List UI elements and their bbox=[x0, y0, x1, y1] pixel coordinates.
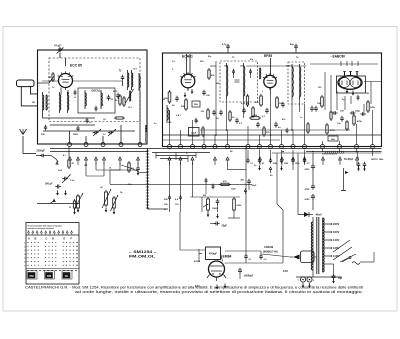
decoupling capacitor 5000 bbox=[269, 150, 278, 165]
wire bbox=[323, 110, 373, 145]
svg-text:CASTELFRANCHI G.R. - Mod. SM 1: CASTELFRANCHI G.R. - Mod. SM 1254. Ricev… bbox=[25, 285, 363, 290]
FM anode coil L3 bbox=[68, 92, 69, 113]
resistor R17 470 bbox=[219, 180, 231, 186]
resistor R27 FM ratio bbox=[114, 117, 125, 119]
value label bbox=[109, 168, 112, 170]
svg-text:4,7p: 4,7p bbox=[222, 43, 227, 46]
terminal pin 7 main box bbox=[246, 145, 250, 149]
oscillator padding capacitor bbox=[107, 95, 114, 101]
trimmer capacitor 47pF above FM box bbox=[54, 44, 64, 59]
AFC capacitor bbox=[113, 90, 120, 99]
band switch contact bbox=[137, 157, 140, 165]
wire bbox=[193, 162, 203, 212]
resistor R5 box bbox=[192, 101, 200, 107]
tube V5 EM84 bbox=[207, 261, 226, 281]
capacitor C11 bbox=[242, 108, 246, 114]
wire bbox=[225, 242, 284, 263]
svg-text:25µF: 25µF bbox=[222, 225, 228, 228]
svg-text:300: 300 bbox=[32, 102, 35, 104]
wire bbox=[312, 199, 314, 210]
speaker connector socket bbox=[301, 251, 315, 263]
svg-text:2: 2 bbox=[24, 246, 25, 248]
electrolytic label 50+50uF bbox=[344, 159, 354, 161]
terminal pin 1 main box bbox=[168, 145, 172, 149]
power transformer primary winding bbox=[311, 222, 313, 270]
svg-text:2M: 2M bbox=[203, 195, 206, 197]
capacitor C28 bbox=[195, 118, 198, 124]
value label bbox=[162, 99, 165, 101]
pickup label right bbox=[371, 159, 384, 161]
resistor R11 det load bbox=[353, 114, 363, 126]
terminal pin 3 main box bbox=[191, 145, 195, 149]
resistor R22 bbox=[252, 106, 254, 118]
band switch contact bbox=[191, 157, 194, 165]
band label FM bbox=[28, 273, 35, 279]
decoupling capacitor 1000 bbox=[280, 150, 289, 165]
wave change switch wire bbox=[37, 199, 80, 203]
band switch contact bbox=[226, 157, 229, 165]
table socket pins row bbox=[28, 231, 73, 235]
capacitor C32 bbox=[205, 178, 208, 194]
value label bbox=[216, 83, 220, 85]
band switch contact bbox=[69, 157, 72, 165]
capacitor C21 bbox=[216, 110, 223, 120]
svg-text:6: 6 bbox=[24, 262, 25, 264]
speaker connector arrow bbox=[290, 255, 300, 260]
wire bbox=[42, 58, 123, 95]
capacitor C7 bbox=[202, 90, 210, 97]
svg-text:EF85: EF85 bbox=[264, 54, 272, 58]
coupling coil L6 bbox=[139, 73, 140, 91]
IF transformer T4 secondary coil bbox=[300, 64, 301, 100]
svg-text:10000: 10000 bbox=[212, 208, 219, 210]
ground return arrow bbox=[258, 166, 261, 171]
terminal pin 4 main box bbox=[202, 145, 206, 149]
capacitor C9 EF85 cathode bbox=[262, 108, 269, 118]
wire bbox=[180, 212, 223, 262]
FM grid coil L2 bbox=[60, 92, 61, 113]
ratio detector resistor R10 bbox=[317, 95, 323, 108]
terminal pin 9 main box bbox=[269, 145, 273, 149]
capacitor C15 antenna 2200pF bbox=[36, 150, 51, 158]
ground return arrow bbox=[73, 210, 76, 215]
ground return arrow bbox=[56, 191, 59, 196]
capacitor C24 bbox=[274, 122, 281, 129]
value label bbox=[74, 97, 77, 99]
resistor R25 bbox=[346, 120, 348, 131]
resistor R31 bbox=[330, 110, 332, 121]
band switch bus wire bbox=[50, 148, 382, 150]
terminal pin 2 FM unit bbox=[84, 143, 88, 147]
svg-text:B: B bbox=[35, 237, 37, 241]
heater wire bbox=[296, 276, 342, 278]
band switch contact bbox=[119, 157, 122, 165]
svg-text:6,3V: 6,3V bbox=[283, 270, 288, 273]
table right column marks bbox=[76, 242, 77, 266]
capacitor C3 feedthrough bbox=[41, 125, 47, 136]
wire bbox=[120, 169, 138, 171]
ground return arrow bbox=[207, 212, 210, 217]
band label outline OM bbox=[45, 271, 55, 279]
svg-text:OM: OM bbox=[84, 165, 88, 167]
wire bbox=[293, 153, 298, 215]
svg-text:470kpF: 470kpF bbox=[209, 253, 218, 256]
svg-text:OL: OL bbox=[65, 274, 69, 278]
wire bbox=[148, 208, 169, 210]
decoupling capacitor 50 bbox=[258, 150, 265, 165]
resistor R29 bbox=[202, 126, 204, 137]
band switch contact bbox=[281, 157, 284, 165]
capacitor C23 bbox=[256, 122, 260, 128]
capacitor C5 in oscillator box bbox=[95, 106, 98, 112]
wire bbox=[86, 162, 138, 176]
cable label bbox=[263, 246, 278, 254]
svg-text:4: 4 bbox=[24, 253, 25, 256]
tube V1 ECC85 label bbox=[70, 64, 82, 68]
IF output transformer 10.7MHz secondary bbox=[132, 70, 133, 90]
value label bbox=[52, 87, 55, 89]
tube V2 ECH81 bbox=[180, 72, 195, 98]
tube V3 EF85 label bbox=[264, 54, 272, 58]
wire bbox=[270, 58, 272, 95]
capacitor C22 bbox=[235, 118, 243, 125]
capacitor C31 10uF bbox=[247, 179, 257, 190]
svg-text:C.A.: C.A. bbox=[70, 179, 75, 182]
value label bbox=[318, 87, 322, 89]
transformer tap 160V bbox=[325, 230, 340, 234]
capacitor C6 ECH81 bbox=[172, 96, 179, 107]
svg-text:2200pF: 2200pF bbox=[37, 150, 46, 153]
svg-text:500: 500 bbox=[162, 99, 165, 101]
ribbon cable hatching bbox=[325, 151, 344, 154]
tuning gang trimmer bbox=[111, 195, 119, 211]
value label bbox=[250, 58, 253, 61]
band switch contact bbox=[103, 157, 106, 165]
svg-text:140V: 140V bbox=[333, 238, 339, 242]
value label bbox=[296, 56, 299, 59]
value label bbox=[58, 170, 63, 172]
resistor R24 EABC80 anode bbox=[367, 100, 376, 113]
pilot lamp T1 bbox=[298, 277, 306, 282]
value label bbox=[172, 61, 175, 63]
model designation SM1254 bbox=[129, 250, 157, 259]
value label bbox=[84, 165, 88, 167]
value label bbox=[246, 103, 249, 105]
ratio det capacitor C12 bbox=[310, 106, 318, 112]
wire bbox=[227, 99, 300, 130]
svg-text:47000: 47000 bbox=[194, 260, 201, 263]
wire bbox=[337, 91, 364, 112]
terminal pin 3 FM unit bbox=[101, 143, 105, 147]
resistor R9 AGC bbox=[249, 115, 261, 119]
resistor R14 bbox=[68, 158, 75, 169]
wire bbox=[228, 165, 247, 170]
svg-text:A: A bbox=[69, 206, 71, 209]
B+ line bbox=[246, 64, 378, 66]
value label bbox=[100, 187, 104, 189]
svg-text:1: 1 bbox=[24, 243, 25, 245]
resistor R32 bbox=[241, 94, 249, 107]
trimmer capacitor OM antenna bbox=[62, 175, 75, 184]
capacitor across T3 primary bbox=[232, 69, 235, 78]
resistor R6 AM osc bbox=[207, 108, 209, 120]
filter capacitor lead bbox=[341, 168, 349, 191]
wire bbox=[364, 82, 382, 105]
svg-text:470k: 470k bbox=[237, 204, 243, 207]
wire bbox=[38, 76, 55, 83]
table header line bbox=[26, 234, 79, 236]
value label bbox=[230, 150, 233, 153]
terminal pin 8 main box bbox=[258, 145, 262, 149]
rectifier diode bbox=[298, 212, 322, 217]
terminal pin 12 main box bbox=[303, 145, 307, 149]
svg-text:220p: 220p bbox=[355, 111, 361, 113]
band switch contact bbox=[85, 157, 88, 165]
tube V3 EF85 bbox=[263, 73, 277, 90]
resistor R12 AF bbox=[326, 123, 336, 135]
value label bbox=[300, 117, 303, 119]
value label bbox=[254, 165, 257, 167]
volume potentiometer bbox=[203, 195, 209, 212]
junction dots bbox=[169, 129, 358, 152]
capacitor C19 bbox=[244, 242, 252, 261]
value label bbox=[120, 192, 124, 194]
wire bbox=[210, 61, 216, 135]
svg-text:50000pF: 50000pF bbox=[244, 276, 254, 278]
oscillator coil L5 bbox=[101, 90, 102, 109]
oscillator coil L4 bbox=[85, 90, 86, 109]
decoupling capacitor 220k bbox=[291, 150, 300, 165]
resistor R21 bbox=[229, 110, 235, 122]
tuning trimmer FM bbox=[93, 129, 106, 136]
svg-text:7: 7 bbox=[24, 265, 25, 267]
wire bbox=[228, 212, 240, 218]
terminal pin 1 FM unit bbox=[68, 143, 72, 147]
ground return arrow bbox=[77, 208, 80, 213]
wire bbox=[169, 110, 171, 123]
value label bbox=[201, 111, 205, 113]
terminal pin 10 main box bbox=[280, 145, 284, 149]
antenna input coil L1 bbox=[43, 92, 48, 113]
wire bbox=[163, 139, 281, 141]
wire bbox=[170, 110, 228, 145]
table row numbers bbox=[24, 243, 25, 268]
svg-text:D: D bbox=[52, 237, 54, 241]
value label bbox=[176, 115, 180, 117]
terminal pin 4 FM unit bbox=[119, 143, 123, 147]
wire bbox=[312, 153, 314, 164]
IF output transformer T2 label bbox=[119, 70, 122, 73]
value label bbox=[200, 61, 204, 63]
svg-text:10µF: 10µF bbox=[191, 132, 197, 134]
capacitor C13 above box2 bbox=[222, 43, 230, 53]
IF transformer T4 primary coil bbox=[292, 64, 293, 100]
svg-text:E: E bbox=[64, 237, 66, 241]
svg-text:10µF: 10µF bbox=[231, 189, 236, 191]
svg-text:Tensioni ai piedini delle valv: Tensioni ai piedini delle valvole di rip… bbox=[28, 226, 63, 228]
svg-text:C: C bbox=[46, 237, 48, 241]
wire bbox=[325, 72, 331, 110]
value label bbox=[172, 69, 174, 71]
capacitor across T3 secondary bbox=[249, 69, 252, 78]
value label bbox=[282, 118, 286, 121]
IF transformer T3 secondary coil bbox=[244, 63, 245, 99]
svg-text:82p: 82p bbox=[290, 44, 294, 46]
tube V4 EABC80 label bbox=[331, 55, 346, 59]
wire bbox=[86, 170, 120, 176]
grid capacitor 47000 bbox=[194, 249, 202, 263]
capacitor C33 bbox=[212, 184, 215, 190]
svg-text:5000: 5000 bbox=[73, 134, 79, 136]
ground return arrow bbox=[105, 208, 108, 213]
wire bbox=[325, 252, 375, 274]
svg-text:– SM1254 –: – SM1254 – bbox=[129, 250, 157, 254]
resistor R1 FM grid bbox=[48, 72, 54, 82]
power transformer core bbox=[317, 217, 319, 274]
terminal pin 5 main box bbox=[213, 145, 217, 149]
capacitor C14 above box2 bbox=[290, 44, 298, 53]
ground return arrow bbox=[280, 166, 283, 171]
value label bbox=[224, 66, 228, 68]
wire bbox=[68, 147, 70, 160]
svg-text:160V: 160V bbox=[333, 230, 339, 234]
terminal pin 6 main box bbox=[226, 145, 230, 149]
value label bbox=[366, 93, 369, 95]
caption line 1 bbox=[25, 285, 363, 290]
oscillator tuning coil bbox=[126, 89, 134, 103]
electrolytic capacitor 50uF b bbox=[363, 162, 367, 171]
capacitor C27 bbox=[136, 166, 140, 176]
resistor R4 bbox=[181, 98, 187, 111]
capacitor C26 FM bbox=[86, 118, 93, 124]
svg-text:4700: 4700 bbox=[305, 198, 311, 201]
tone capacitor 4700pF 2 bbox=[305, 184, 316, 191]
svg-text:10n: 10n bbox=[337, 123, 341, 125]
phono input label bbox=[322, 153, 338, 156]
electrolytic capacitor 50uF output bbox=[332, 274, 343, 284]
tube V1 ECC85 bbox=[58, 71, 73, 95]
core symbol T3 bbox=[235, 80, 240, 82]
detector caps row bbox=[332, 111, 366, 116]
resistor R13 box bbox=[328, 136, 338, 141]
value label bbox=[178, 115, 182, 117]
svg-text:4700: 4700 bbox=[286, 65, 290, 68]
svg-text:- EABC80: - EABC80 bbox=[331, 55, 346, 59]
wire bbox=[323, 149, 373, 161]
band switch contact bbox=[77, 157, 80, 165]
dial cord indicator line bbox=[146, 149, 149, 210]
ground return arrow bbox=[113, 210, 116, 215]
svg-text:AFC: AFC bbox=[113, 90, 118, 93]
svg-text:EM84: EM84 bbox=[223, 255, 232, 259]
capacitor C8 bbox=[212, 110, 216, 116]
wire bbox=[200, 129, 350, 131]
terminal pin 13 main box bbox=[321, 145, 325, 149]
wire bbox=[110, 170, 120, 184]
capacitor C29 bbox=[286, 128, 289, 134]
value label bbox=[154, 123, 157, 125]
voltage selector switch arm bbox=[333, 240, 356, 262]
capacitor C25 bbox=[337, 116, 344, 125]
value label bbox=[186, 153, 188, 155]
svg-text:FM.OM.OL: FM.OM.OL bbox=[129, 255, 156, 259]
value label bbox=[128, 184, 132, 186]
svg-text:220k: 220k bbox=[370, 107, 376, 109]
ground return arrow bbox=[224, 284, 227, 289]
resistor R8 EF85 cathode bbox=[276, 96, 284, 109]
value label bbox=[128, 107, 133, 109]
tube socket voltage table box bbox=[26, 223, 79, 285]
svg-text:Ω: Ω bbox=[164, 209, 166, 211]
oscillator coil AM bbox=[167, 105, 168, 123]
value label bbox=[133, 69, 138, 71]
svg-text:OM: OM bbox=[47, 274, 51, 278]
tube V4 EABC80 bbox=[337, 72, 366, 96]
band switch contact bbox=[303, 157, 306, 165]
resistor R23 bbox=[263, 126, 271, 137]
svg-text:10µF: 10µF bbox=[252, 185, 258, 187]
wire bbox=[50, 124, 95, 126]
wire bbox=[341, 61, 358, 66]
feedthrough coil bbox=[146, 126, 147, 144]
capacitor C30 EABC det bbox=[357, 95, 360, 101]
svg-text:CABI.IM: CABI.IM bbox=[264, 246, 273, 249]
terminal pin 16 main box bbox=[371, 145, 375, 149]
wire bbox=[312, 217, 314, 277]
value label bbox=[240, 66, 244, 68]
svg-text:1000: 1000 bbox=[224, 66, 228, 68]
band label OM bbox=[46, 273, 53, 279]
ground return arrow bbox=[64, 191, 67, 196]
switch contact antenna bbox=[51, 156, 58, 165]
capacitor C2 feedthrough bbox=[73, 126, 80, 136]
dashed IF transformer T3 box bbox=[220, 61, 258, 102]
coil left of EF85 bbox=[260, 68, 261, 79]
resistor R30 bbox=[307, 122, 309, 134]
band label OL bbox=[63, 273, 70, 279]
resistor R7 EF85 screen bbox=[255, 94, 262, 107]
electrolytic capacitor 50uF a bbox=[357, 162, 361, 171]
svg-text:500 µF: 500 µF bbox=[45, 183, 53, 186]
value label bbox=[286, 65, 290, 68]
heater label 6.3V bbox=[283, 270, 288, 273]
value label bbox=[63, 154, 67, 157]
tube V5 EM84 label bbox=[223, 255, 232, 259]
tube V2 ECH81 label bbox=[182, 55, 193, 59]
capacitor C18 25uF bbox=[210, 222, 228, 228]
svg-text:470: 470 bbox=[250, 58, 253, 61]
value label bbox=[168, 122, 172, 124]
table dashed separator bbox=[26, 269, 79, 271]
svg-text:ad onde lunghe, medie e ultrac: ad onde lunghe, medie e ultracorte, esse… bbox=[75, 290, 363, 294]
decoupling capacitor 0,1 bbox=[303, 150, 310, 165]
band switch contact bbox=[292, 157, 295, 165]
table column letters bbox=[28, 237, 73, 241]
ground return arrow bbox=[302, 283, 305, 288]
receiving antenna symbol bbox=[20, 129, 27, 135]
diode mark AF bbox=[244, 189, 246, 194]
svg-text:1M: 1M bbox=[366, 93, 369, 95]
wire bbox=[43, 130, 135, 132]
terminal pin 5 FM unit bbox=[138, 143, 142, 147]
pilot lamp T2 bbox=[307, 277, 315, 282]
value label bbox=[262, 91, 264, 93]
ground return arrow bbox=[216, 214, 219, 219]
switch wiring zigzag bbox=[152, 153, 210, 163]
wire bbox=[314, 256, 317, 258]
resistor R2 bbox=[115, 94, 121, 106]
svg-text:40mA: 40mA bbox=[316, 214, 323, 217]
